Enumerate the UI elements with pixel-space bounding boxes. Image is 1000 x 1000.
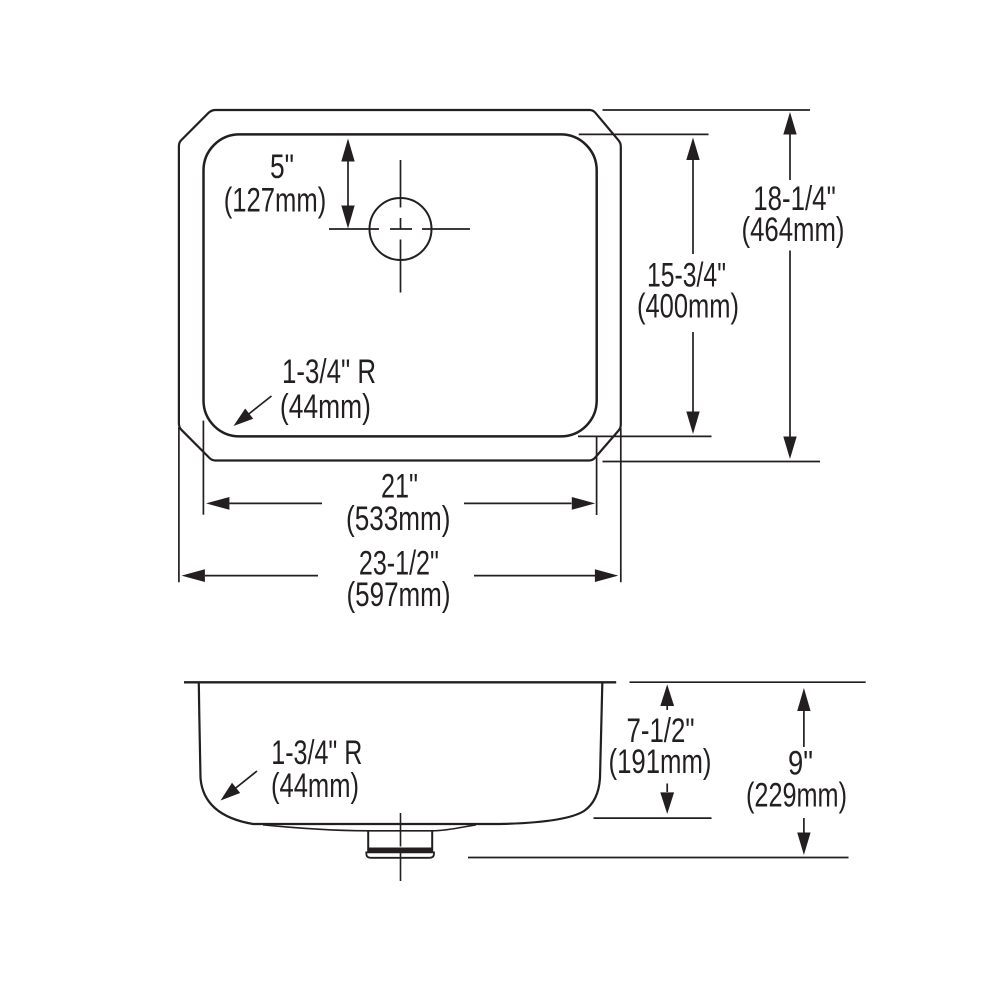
svg-text:(533mm): (533mm) <box>346 500 450 538</box>
svg-text:(44mm): (44mm) <box>271 767 359 805</box>
svg-text:(191mm): (191mm) <box>609 743 712 781</box>
svg-text:1-3/4" R: 1-3/4" R <box>282 353 376 391</box>
svg-text:(597mm): (597mm) <box>347 576 451 614</box>
svg-text:(400mm): (400mm) <box>637 288 739 326</box>
svg-text:(44mm): (44mm) <box>280 388 371 426</box>
svg-text:5": 5" <box>270 148 294 186</box>
svg-text:(229mm): (229mm) <box>746 777 847 815</box>
svg-text:(464mm): (464mm) <box>742 211 845 249</box>
svg-text:(127mm): (127mm) <box>224 182 327 220</box>
